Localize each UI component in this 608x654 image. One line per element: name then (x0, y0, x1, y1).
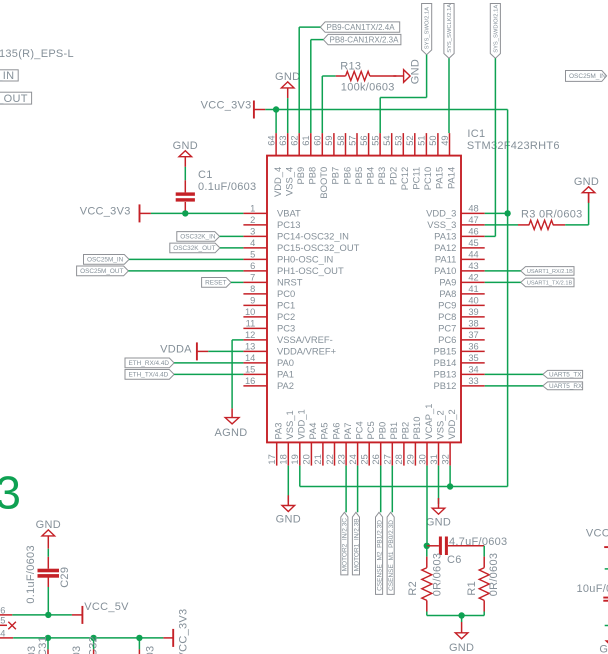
svg-text:6: 6 (250, 261, 255, 271)
svg-text:32: 32 (440, 454, 450, 464)
svg-text:V3: V3 (0, 467, 21, 519)
svg-text:OSC32K_OUT: OSC32K_OUT (173, 245, 215, 252)
svg-text:31: 31 (429, 454, 439, 464)
svg-text:0R/0603: 0R/0603 (431, 553, 443, 597)
svg-text:41: 41 (468, 284, 478, 294)
svg-text:PA8: PA8 (439, 288, 456, 299)
svg-text:PC11: PC11 (411, 167, 422, 190)
svg-text:47: 47 (468, 215, 478, 225)
svg-text:29: 29 (406, 454, 416, 464)
svg-text:49: 49 (440, 135, 450, 145)
svg-text:43: 43 (468, 261, 478, 271)
svg-text:63: 63 (278, 135, 288, 145)
svg-text:35: 35 (468, 353, 478, 363)
svg-text:13: 13 (245, 341, 255, 351)
svg-text:PC14-OSC32_IN: PC14-OSC32_IN (277, 231, 349, 242)
svg-text:PA15: PA15 (434, 167, 445, 189)
svg-text:22: 22 (325, 454, 335, 464)
svg-text:PB10: PB10 (411, 417, 422, 440)
svg-text:GND: GND (36, 519, 61, 531)
svg-text:50: 50 (428, 135, 438, 145)
svg-text:PC7: PC7 (438, 323, 456, 334)
svg-text:MOTOR2_IN/2.3C: MOTOR2_IN/2.3C (342, 518, 349, 572)
svg-text:_OUT: _OUT (0, 93, 28, 105)
svg-text:45: 45 (468, 238, 478, 248)
svg-text:VCC_5V: VCC_5V (84, 601, 129, 613)
svg-text:1: 1 (250, 203, 255, 213)
svg-text:PA10: PA10 (434, 265, 456, 276)
svg-text:36: 36 (468, 341, 478, 351)
svg-text:PA9: PA9 (439, 277, 456, 288)
svg-text:5: 5 (0, 616, 5, 626)
svg-text:0.1uF/0603: 0.1uF/0603 (25, 545, 37, 603)
svg-text:VDD_4: VDD_4 (272, 167, 283, 197)
svg-text:17: 17 (267, 454, 277, 464)
svg-text:15: 15 (245, 364, 255, 374)
svg-text:UART5_TX: UART5_TX (549, 372, 582, 379)
svg-text:0.1uF/0603: 0.1uF/0603 (71, 646, 83, 654)
svg-text:PC12: PC12 (399, 167, 410, 190)
svg-text:4: 4 (250, 238, 255, 248)
svg-text:C1: C1 (198, 169, 213, 181)
svg-text:PB8: PB8 (307, 167, 318, 185)
svg-text:VDD_2: VDD_2 (446, 409, 457, 439)
svg-text:55: 55 (370, 135, 380, 145)
svg-text:PA7: PA7 (342, 422, 353, 439)
svg-text:VSS_2: VSS_2 (434, 410, 445, 439)
svg-text:VCC_3V3: VCC_3V3 (178, 609, 190, 654)
svg-text:PB2: PB2 (400, 422, 411, 440)
svg-text:100k/0603: 100k/0603 (341, 82, 395, 94)
svg-text:44: 44 (468, 249, 478, 259)
svg-text:0R/0603: 0R/0603 (488, 553, 500, 597)
svg-text:PC8: PC8 (438, 311, 456, 322)
svg-text:57: 57 (347, 135, 357, 145)
svg-text:GND: GND (599, 643, 608, 654)
svg-text:5: 5 (250, 249, 255, 259)
svg-text:R13: R13 (340, 60, 361, 72)
svg-text:GND: GND (574, 176, 599, 188)
svg-text:52: 52 (405, 135, 415, 145)
svg-text:24: 24 (348, 454, 358, 464)
svg-text:UART5_RX: UART5_RX (549, 383, 583, 390)
svg-text:11: 11 (246, 318, 256, 328)
svg-text:42: 42 (468, 272, 478, 282)
svg-text:10uF/0603: 10uF/0603 (577, 583, 608, 595)
svg-text:OSC25M_IN: OSC25M_IN (569, 73, 606, 80)
svg-text:34: 34 (468, 364, 478, 374)
svg-text:0.1uF/0603: 0.1uF/0603 (198, 181, 256, 193)
svg-text:BOOT0: BOOT0 (318, 167, 329, 199)
svg-text:46: 46 (468, 226, 478, 236)
svg-text:14: 14 (245, 353, 255, 363)
svg-text:51: 51 (417, 135, 427, 145)
svg-text:VDDA/VREF+: VDDA/VREF+ (277, 346, 337, 357)
svg-text:VDD_1: VDD_1 (296, 409, 307, 439)
svg-text:USART1_RX/2.1B: USART1_RX/2.1B (527, 269, 573, 275)
svg-text:USART1_TX/2.1B: USART1_TX/2.1B (527, 280, 573, 286)
svg-text:PH1-OSC_OUT: PH1-OSC_OUT (277, 265, 344, 276)
svg-text:GND: GND (276, 514, 301, 526)
svg-text:VSS_3: VSS_3 (427, 219, 456, 230)
svg-text:CSENSE_M1_PB0/2.3D: CSENSE_M1_PB0/2.3D (388, 520, 395, 591)
svg-text:27: 27 (383, 454, 393, 464)
svg-text:21: 21 (313, 454, 323, 464)
svg-text:OSC25M_IN: OSC25M_IN (87, 257, 124, 264)
svg-text:VSS_4: VSS_4 (284, 167, 295, 196)
svg-text:GND: GND (426, 516, 451, 528)
svg-text:56: 56 (359, 135, 369, 145)
svg-text:PA11: PA11 (435, 254, 457, 265)
svg-text:62: 62 (290, 135, 300, 145)
svg-text:39: 39 (468, 307, 478, 317)
svg-text:PC5: PC5 (365, 421, 376, 439)
svg-text:10: 10 (245, 307, 255, 317)
svg-text:PC4: PC4 (353, 421, 364, 439)
svg-text:R2: R2 (407, 581, 419, 596)
svg-text:_IN: _IN (0, 70, 14, 82)
svg-text:PD2: PD2 (388, 167, 399, 185)
svg-text:PA0: PA0 (277, 357, 294, 368)
svg-text:RESET: RESET (205, 280, 226, 287)
svg-text:135(R)_EPS-L: 135(R)_EPS-L (0, 48, 74, 60)
svg-text:12: 12 (245, 330, 255, 340)
svg-text:PA2: PA2 (277, 380, 294, 391)
svg-text:VCC_3V3: VCC_3V3 (201, 99, 252, 111)
svg-text:R3 0R/0603: R3 0R/0603 (521, 209, 583, 221)
svg-text:PC15-OSC32_OUT: PC15-OSC32_OUT (277, 242, 360, 253)
svg-text:PB5: PB5 (353, 167, 364, 185)
svg-text:VSSA/VREF-: VSSA/VREF- (277, 334, 333, 345)
svg-text:GND: GND (449, 642, 474, 654)
svg-text:PA4: PA4 (307, 422, 318, 439)
svg-text:0.1uF/0603: 0.1uF/0603 (145, 646, 157, 654)
svg-text:PB9-CAN1TX/2.4A: PB9-CAN1TX/2.4A (327, 23, 396, 32)
svg-text:SYS_SWCLK/2.1A: SYS_SWCLK/2.1A (447, 4, 453, 53)
svg-text:IC1: IC1 (467, 128, 485, 140)
svg-text:53: 53 (394, 135, 404, 145)
svg-text:GND: GND (409, 59, 421, 84)
svg-text:26: 26 (371, 454, 381, 464)
svg-text:4: 4 (0, 628, 5, 638)
svg-text:C31: C31 (37, 636, 49, 654)
svg-text:PB9: PB9 (295, 167, 306, 185)
svg-text:C6: C6 (447, 554, 462, 566)
svg-text:PB13: PB13 (433, 369, 456, 380)
svg-text:PA5: PA5 (319, 422, 330, 439)
svg-text:PC0: PC0 (277, 288, 295, 299)
svg-text:60: 60 (313, 135, 323, 145)
svg-text:2: 2 (250, 215, 255, 225)
svg-text:PA14: PA14 (445, 167, 456, 189)
svg-text:PC1: PC1 (277, 300, 295, 311)
svg-text:ETH_TX/4.4D: ETH_TX/4.4D (129, 372, 169, 379)
svg-text:PB6: PB6 (341, 167, 352, 185)
svg-text:STM32F423RHT6: STM32F423RHT6 (467, 140, 560, 152)
svg-text:VCAP_1: VCAP_1 (423, 404, 434, 440)
svg-text:30: 30 (417, 454, 427, 464)
svg-text:PC6: PC6 (438, 334, 456, 345)
svg-text:VBAT: VBAT (277, 208, 301, 219)
svg-text:28: 28 (394, 454, 404, 464)
svg-text:PB4: PB4 (364, 167, 375, 185)
svg-text:PA6: PA6 (330, 422, 341, 439)
svg-text:PB14: PB14 (433, 357, 456, 368)
svg-text:ETH_RX/4.4D: ETH_RX/4.4D (129, 360, 170, 367)
svg-text:59: 59 (324, 135, 334, 145)
svg-text:19: 19 (290, 454, 300, 464)
svg-text:NRST: NRST (277, 277, 303, 288)
svg-text:PH0-OSC_IN: PH0-OSC_IN (277, 254, 333, 265)
svg-text:PB12: PB12 (433, 380, 456, 391)
svg-text:48: 48 (468, 203, 478, 213)
svg-text:54: 54 (382, 135, 392, 145)
svg-text:PC10: PC10 (422, 167, 433, 190)
svg-text:VDDA: VDDA (160, 344, 192, 356)
svg-text:PA13: PA13 (434, 231, 456, 242)
svg-text:6: 6 (0, 605, 5, 615)
svg-text:58: 58 (336, 135, 346, 145)
svg-text:PB15: PB15 (433, 346, 456, 357)
svg-text:C29: C29 (59, 567, 71, 588)
svg-text:18: 18 (279, 454, 289, 464)
svg-text:61: 61 (301, 135, 311, 145)
svg-text:3: 3 (250, 226, 255, 236)
svg-text:SYS_SWDIO/2.1A: SYS_SWDIO/2.1A (494, 5, 500, 53)
svg-text:OSC25M_OUT: OSC25M_OUT (80, 268, 123, 275)
svg-text:40: 40 (468, 295, 478, 305)
svg-text:PC13: PC13 (277, 219, 300, 230)
svg-text:64: 64 (266, 135, 276, 145)
svg-text:8: 8 (250, 284, 255, 294)
svg-text:GND: GND (173, 140, 198, 152)
svg-text:PB8-CAN1RX/2.3A: PB8-CAN1RX/2.3A (330, 36, 400, 45)
svg-text:PC2: PC2 (277, 311, 295, 322)
svg-text:23: 23 (336, 454, 346, 464)
svg-text:OSC32K_IN: OSC32K_IN (180, 234, 216, 241)
svg-text:VDD_3: VDD_3 (426, 208, 456, 219)
svg-text:7: 7 (250, 272, 255, 282)
svg-text:PB0: PB0 (377, 422, 388, 440)
svg-text:25: 25 (360, 454, 370, 464)
svg-text:33: 33 (468, 376, 478, 386)
svg-text:C32: C32 (88, 636, 100, 654)
svg-text:CSENSE_M2_PB1/2.3D: CSENSE_M2_PB1/2.3D (376, 520, 383, 591)
svg-text:PB1: PB1 (388, 422, 399, 440)
svg-text:GND: GND (275, 71, 300, 83)
svg-text:PC9: PC9 (438, 300, 456, 311)
svg-text:VSS_1: VSS_1 (284, 410, 295, 439)
svg-text:37: 37 (468, 330, 478, 340)
svg-text:VCC_3V3: VCC_3V3 (586, 527, 608, 539)
svg-text:38: 38 (468, 318, 478, 328)
svg-text:4.7uF/0603: 4.7uF/0603 (449, 536, 507, 548)
svg-text:MOTOR1_IN/2.3B: MOTOR1_IN/2.3B (353, 518, 360, 571)
svg-text:PA12: PA12 (434, 242, 456, 253)
svg-text:9: 9 (250, 295, 255, 305)
svg-text:PC3: PC3 (277, 323, 295, 334)
svg-text:PB7: PB7 (330, 167, 341, 185)
svg-text:16: 16 (245, 376, 255, 386)
svg-text:SYS_SWO/2.1A: SYS_SWO/2.1A (425, 7, 431, 49)
svg-text:VCC_3V3: VCC_3V3 (80, 205, 131, 217)
svg-text:PA3: PA3 (273, 422, 284, 439)
svg-text:PB3: PB3 (376, 167, 387, 185)
svg-text:20: 20 (302, 454, 312, 464)
svg-text:PA1: PA1 (277, 369, 294, 380)
svg-text:R1: R1 (466, 581, 478, 596)
svg-text:AGND: AGND (215, 427, 248, 439)
